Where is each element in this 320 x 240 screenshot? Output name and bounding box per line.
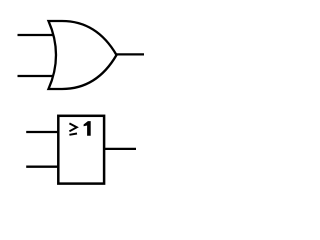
wire: output of IEC OR gate U2 — [104, 148, 136, 150]
wire: output of OR gate U1 — [116, 53, 145, 55]
wire: lower input of OR gate U1 — [18, 75, 55, 77]
wire: upper input of IEC OR gate U2 — [26, 131, 58, 133]
OR gate U1 (ANSI distinctive shape) — [49, 21, 117, 89]
wire: lower input of IEC OR gate U2 — [26, 166, 58, 168]
label: "≥" greater-equal sign of U2 — [69, 123, 77, 134]
label: "1" of U2 function label — [84, 121, 91, 136]
wire: upper input of OR gate U1 — [18, 34, 55, 36]
OR gate U2 (IEC rectangular symbol body) — [58, 116, 104, 184]
